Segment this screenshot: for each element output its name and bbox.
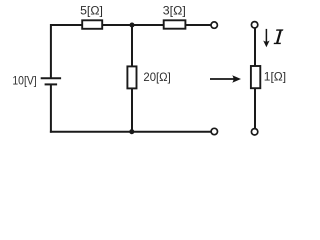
- node junction dot top: [129, 22, 134, 27]
- wire: left vertical upper (top corner to source): [50, 24, 52, 78]
- wire: left vertical lower: [50, 84, 52, 132]
- wire: load branch upper vertical: [254, 28, 256, 67]
- wire: bottom horizontal: [50, 131, 211, 133]
- resistor R3 20 ohm (vertical box): [127, 66, 136, 88]
- terminal top (open circle): [211, 22, 217, 28]
- voltage source 10V battery short plate: [45, 83, 58, 85]
- resistor R1 5 ohm (box): [82, 20, 102, 29]
- wire: top middle segment: [102, 24, 164, 26]
- resistor R2 3 ohm (box): [164, 20, 186, 28]
- terminal bottom of load branch (open circle): [251, 129, 257, 135]
- svg-text:20[Ω]: 20[Ω]: [143, 70, 170, 84]
- svg-text:5[Ω]: 5[Ω]: [80, 3, 103, 17]
- node junction dot bottom: [129, 129, 134, 134]
- svg-text:3[Ω]: 3[Ω]: [163, 4, 186, 18]
- terminal bottom (open circle): [211, 128, 217, 134]
- wire: middle vertical lower: [131, 88, 133, 131]
- svg-text:1[Ω]: 1[Ω]: [264, 69, 286, 83]
- terminal top of load branch (open circle): [251, 22, 257, 28]
- wire: top right segment to terminal: [185, 24, 211, 26]
- resistor R4 1 ohm load (vertical box): [251, 66, 260, 88]
- wire: load branch lower vertical: [254, 88, 256, 128]
- label I (current): [274, 29, 284, 44]
- svg-text:10[V]: 10[V]: [12, 75, 36, 88]
- wire: top-left horizontal segment: [51, 24, 83, 26]
- voltage source 10V battery long plate: [41, 77, 61, 79]
- arrow: current I direction (points down): [263, 29, 269, 47]
- wire: middle vertical upper: [131, 25, 133, 67]
- arrow: equivalent-source direction (points right): [210, 75, 241, 83]
